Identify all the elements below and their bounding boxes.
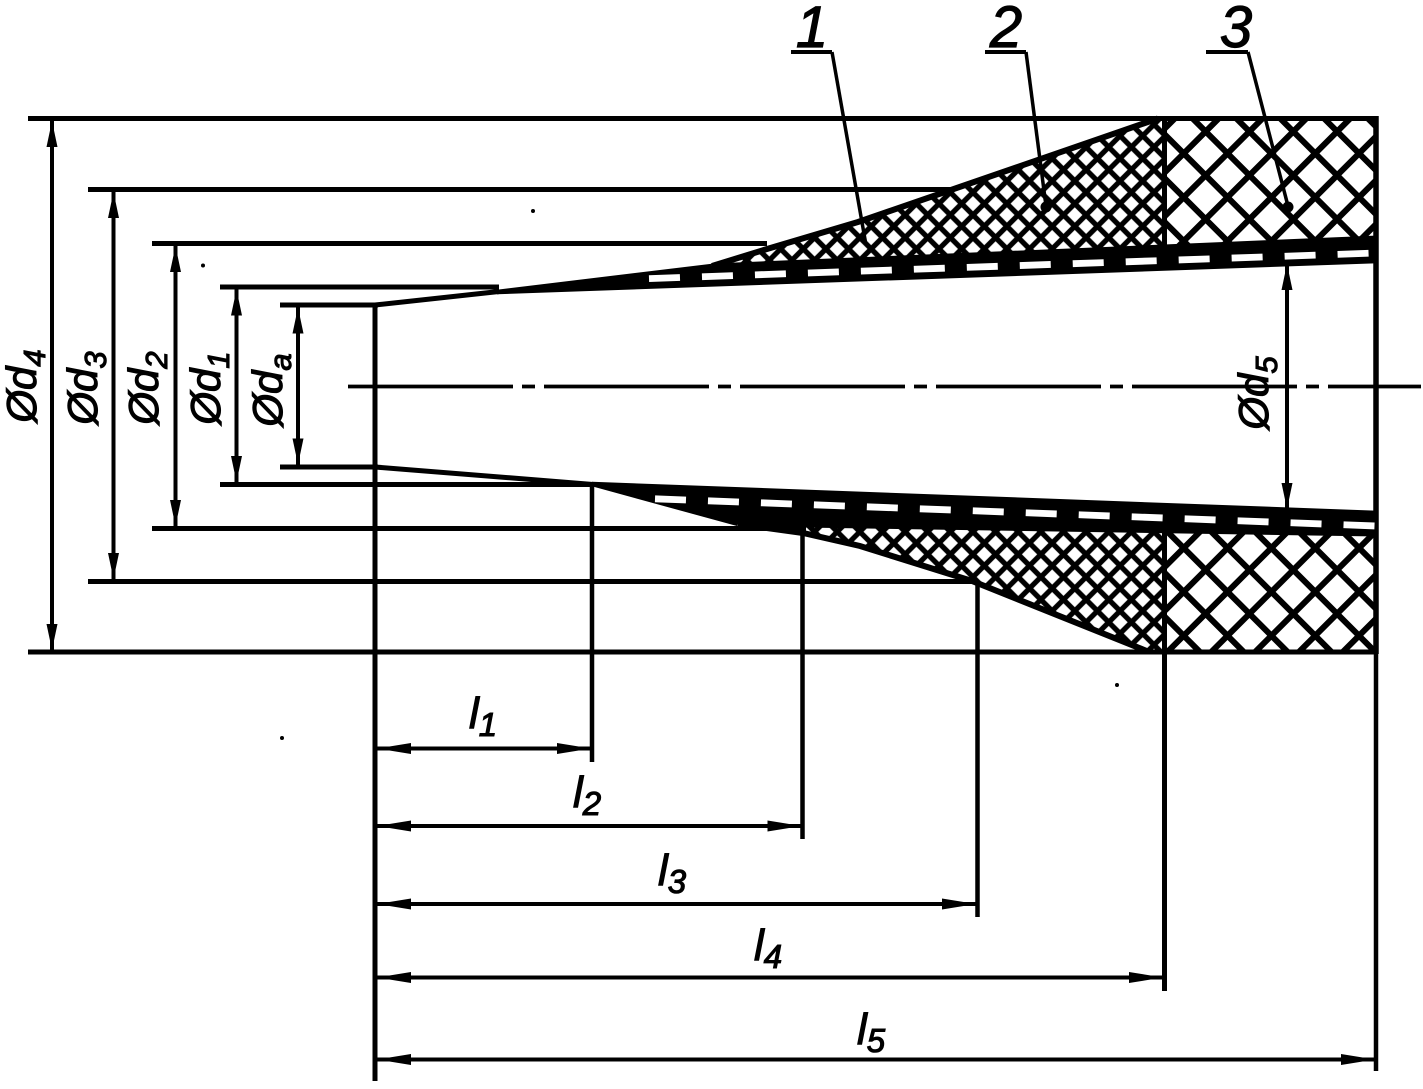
part sheath band bottom (part 1) [592,484,1379,534]
wire d1 bottom line [220,482,592,487]
wire d1 top line [220,285,499,290]
dimension d2 line [174,246,178,526]
wire cone tip top slant [375,292,499,306]
wire bottom hatch top boundary [738,524,1378,534]
wire white dashed line in top band [649,253,1376,279]
leader for part 1 [791,50,832,54]
wire wedge hypotenuse top [712,119,1158,267]
wire extension l3 [975,583,980,917]
wire outer bottom line [28,650,1378,655]
speck [201,264,205,268]
dimension d5 line [1285,264,1289,509]
wire d3 bottom line [88,579,972,584]
dimension d3 line [112,192,116,579]
dimension d4 line [50,121,54,650]
wire d2 top line [152,241,767,246]
wire extension l1 [590,486,595,762]
wire top band upper edge (sliver) [497,266,712,292]
wire d3 top line [88,187,952,192]
node centerline [348,385,1421,389]
wire bottom band upper edge [592,484,1378,513]
dimension d1 line [235,290,239,483]
dimension da line [296,308,300,465]
part jacket hatch bottom (part 3) [1164,529,1378,652]
wire da bottom line [280,465,378,470]
wire white dashed line in bottom band [655,499,1376,526]
wire right edge [1373,116,1379,654]
wire extension l2 [800,530,805,839]
wire hatch divider bottom + l4 extension [1162,528,1167,991]
part jacket hatch top (part 3) [1164,119,1378,248]
wire top band lower edge [497,261,1378,292]
part wedge hatch bottom (part 2) [738,524,1164,652]
dimension l4 line [377,976,1163,980]
leader for part 3 [1206,50,1248,54]
part sheath band top (part 1) [497,238,1379,292]
wire cone tip bottom slant [375,467,593,485]
speck [280,736,284,740]
wire outer top line [28,116,1378,121]
leader for part 2 [985,50,1026,54]
wire hatch divider top [1162,119,1167,248]
wire d2 bottom line [152,526,806,531]
dimension l1 line [377,747,591,751]
wire extension l5 [1374,654,1379,1071]
wire wedge hypotenuse bottom [738,524,1148,652]
wire top hatch bottom boundary [712,238,1378,266]
speck [1115,683,1119,687]
wire tip vertical / l dim origin extension [373,303,378,1082]
dimension l5 line [377,1058,1375,1062]
dimension l2 line [377,824,802,828]
wire bottom band lower edge (sliver) [592,484,738,524]
part wedge hatch top (part 2) [712,119,1164,267]
wire da top line [280,303,378,308]
speck [531,209,535,213]
dimension l3 line [377,902,976,906]
